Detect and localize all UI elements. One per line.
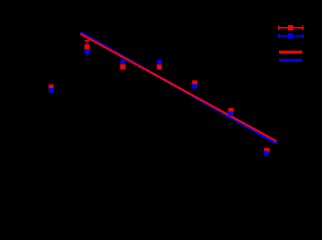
legend entry 2: blue square marker [288,33,293,38]
point P1 red marker [49,85,54,90]
point P2 red error bar [85,41,90,54]
point P2 blue marker [85,49,90,54]
point P6 red marker [228,108,233,113]
legend entry 1: red error bar sample [278,26,303,30]
point P4 blue marker [157,60,162,65]
legend entry 1: red square marker [288,25,293,30]
blue fit line [81,32,277,143]
point P4 red marker [157,65,162,70]
point P5 blue marker [192,84,197,89]
legend entry 4: blue line sample [279,59,302,62]
point P2 blue error bar [85,44,90,57]
legend entry 2: blue error bar sample [278,34,303,38]
red fit line [81,34,277,141]
point P2 red marker [85,44,90,49]
point P5 red marker [192,80,197,85]
point P7 blue marker [264,151,269,156]
point P6 blue marker [228,111,233,116]
legend entry 3: red line sample [279,51,302,54]
point P7 red marker [264,148,269,153]
point P1 blue marker [49,88,54,93]
point P3 red marker [120,64,125,69]
point P3 blue marker [120,60,125,65]
